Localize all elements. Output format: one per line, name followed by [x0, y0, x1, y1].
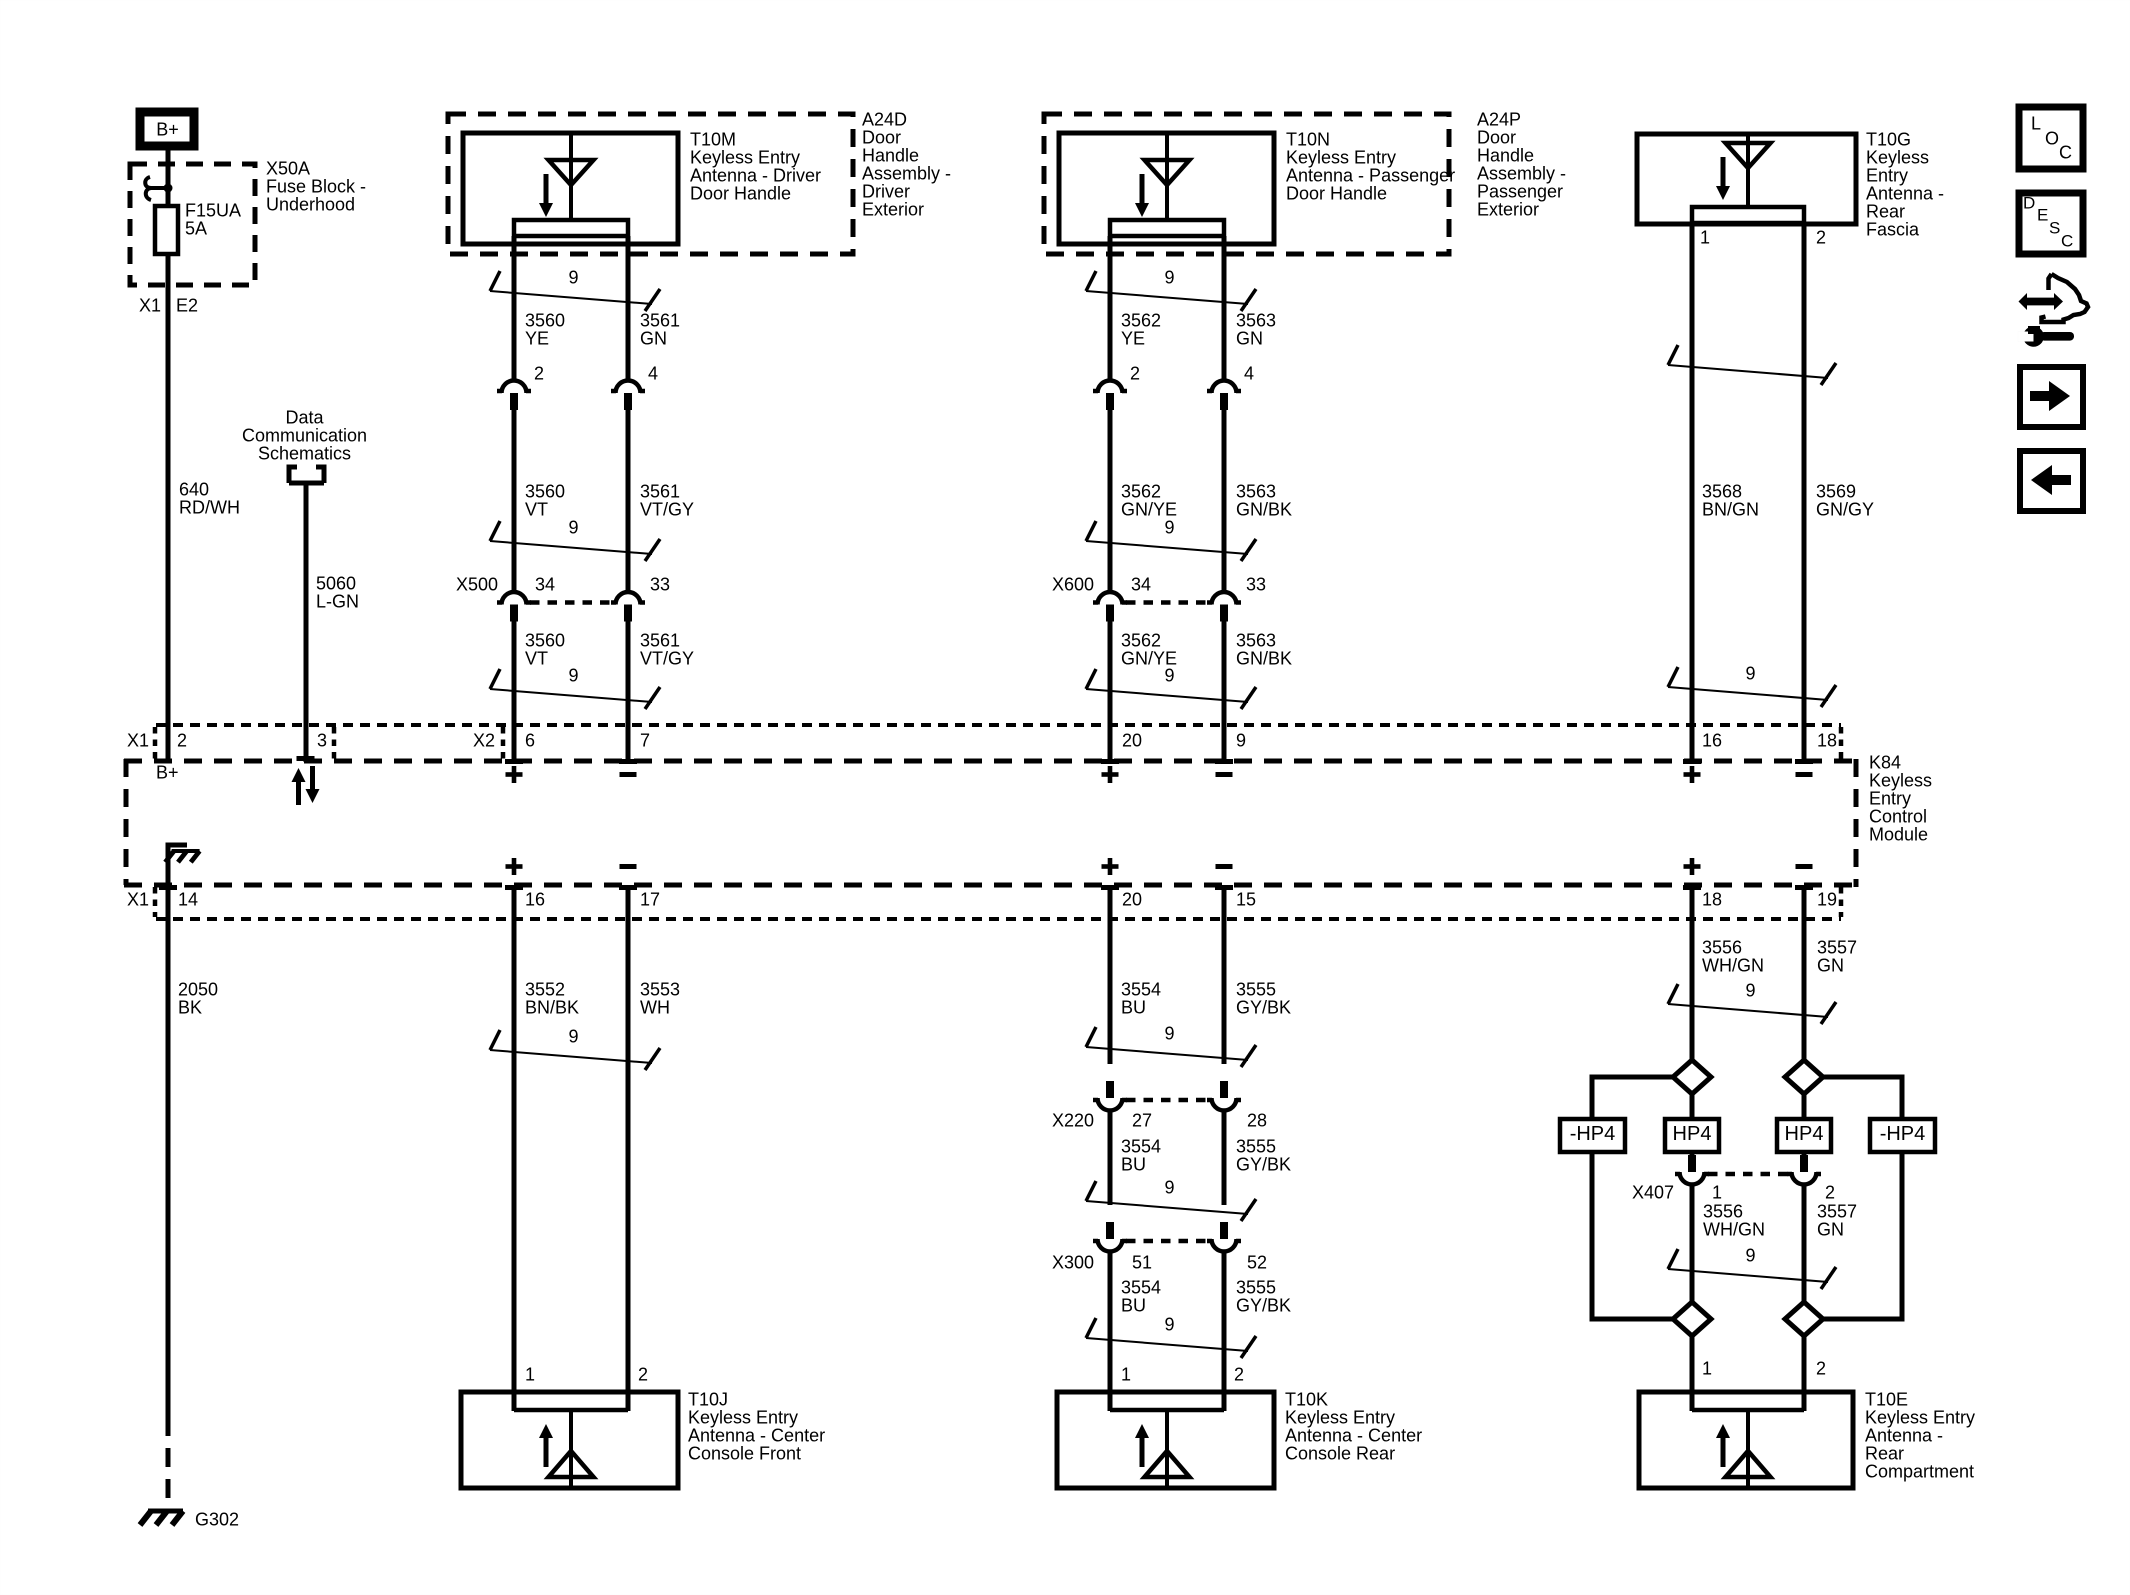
svg-text:20: 20: [1122, 730, 1142, 750]
svg-text:Fascia: Fascia: [1866, 219, 1920, 239]
svg-text:O: O: [2045, 128, 2059, 148]
svg-text:6: 6: [525, 730, 535, 750]
svg-text:BU: BU: [1121, 1154, 1146, 1174]
svg-text:Handle: Handle: [862, 145, 919, 165]
svg-text:-HP4: -HP4: [1880, 1123, 1926, 1145]
svg-text:9: 9: [568, 267, 578, 287]
svg-text:3562: 3562: [1121, 481, 1161, 501]
svg-text:Entry: Entry: [1866, 165, 1908, 185]
svg-text:B+: B+: [156, 762, 179, 782]
svg-text:RD/WH: RD/WH: [179, 497, 240, 517]
svg-text:3: 3: [317, 730, 327, 750]
svg-text:HP4: HP4: [1785, 1123, 1824, 1145]
svg-text:Underhood: Underhood: [266, 194, 355, 214]
svg-text:Entry: Entry: [1869, 788, 1911, 808]
svg-text:2: 2: [1825, 1182, 1835, 1202]
svg-text:Antenna - Driver: Antenna - Driver: [690, 165, 821, 185]
svg-text:T10E: T10E: [1865, 1389, 1908, 1409]
svg-text:Keyless Entry: Keyless Entry: [688, 1407, 798, 1427]
svg-text:3560: 3560: [525, 310, 565, 330]
svg-text:16: 16: [1702, 730, 1722, 750]
svg-text:X407: X407: [1632, 1182, 1674, 1202]
svg-text:Antenna -: Antenna -: [1865, 1425, 1943, 1445]
svg-text:X600: X600: [1052, 574, 1094, 594]
svg-text:GY/BK: GY/BK: [1236, 997, 1291, 1017]
svg-text:GN: GN: [1817, 1219, 1844, 1239]
svg-text:3560: 3560: [525, 630, 565, 650]
svg-text:640: 640: [179, 479, 209, 499]
svg-text:Assembly -: Assembly -: [862, 163, 951, 183]
svg-text:9: 9: [1164, 517, 1174, 537]
svg-text:E2: E2: [176, 295, 198, 315]
svg-text:52: 52: [1247, 1252, 1267, 1272]
svg-text:3561: 3561: [640, 481, 680, 501]
svg-text:GN/YE: GN/YE: [1121, 499, 1177, 519]
svg-text:Schematics: Schematics: [258, 443, 351, 463]
svg-text:Console Front: Console Front: [688, 1443, 801, 1463]
svg-text:Antenna - Center: Antenna - Center: [1285, 1425, 1422, 1445]
svg-text:4: 4: [1244, 363, 1254, 383]
svg-text:9: 9: [1164, 1023, 1174, 1043]
svg-text:Keyless Entry: Keyless Entry: [690, 147, 800, 167]
svg-text:WH: WH: [640, 997, 670, 1017]
svg-text:16: 16: [525, 889, 545, 909]
svg-text:BU: BU: [1121, 997, 1146, 1017]
svg-text:19: 19: [1817, 889, 1837, 909]
svg-text:3555: 3555: [1236, 979, 1276, 999]
svg-text:17: 17: [640, 889, 660, 909]
svg-text:VT/GY: VT/GY: [640, 499, 694, 519]
svg-text:27: 27: [1132, 1110, 1152, 1130]
svg-text:K84: K84: [1869, 752, 1901, 772]
svg-text:Exterior: Exterior: [1477, 199, 1539, 219]
svg-text:9: 9: [1164, 267, 1174, 287]
svg-text:Data: Data: [285, 407, 324, 427]
svg-text:1: 1: [1712, 1182, 1722, 1202]
svg-text:Antenna - Center: Antenna - Center: [688, 1425, 825, 1445]
svg-text:Rear: Rear: [1865, 1443, 1904, 1463]
svg-text:C: C: [2059, 142, 2072, 162]
svg-text:Keyless Entry: Keyless Entry: [1285, 1407, 1395, 1427]
svg-text:3563: 3563: [1236, 481, 1276, 501]
svg-text:C: C: [2061, 232, 2073, 251]
svg-text:L: L: [2031, 113, 2041, 133]
svg-text:5A: 5A: [185, 218, 207, 238]
svg-text:WH/GN: WH/GN: [1703, 1219, 1765, 1239]
svg-text:2: 2: [534, 363, 544, 383]
svg-text:34: 34: [1131, 574, 1151, 594]
svg-text:E: E: [2037, 206, 2048, 225]
svg-text:3563: 3563: [1236, 310, 1276, 330]
svg-text:3554: 3554: [1121, 979, 1161, 999]
svg-text:Driver: Driver: [862, 181, 910, 201]
svg-text:GN: GN: [1817, 955, 1844, 975]
svg-text:3556: 3556: [1702, 937, 1742, 957]
svg-text:T10M: T10M: [690, 129, 736, 149]
svg-text:F15UA: F15UA: [185, 200, 241, 220]
svg-text:3552: 3552: [525, 979, 565, 999]
svg-text:Keyless: Keyless: [1866, 147, 1929, 167]
svg-text:9: 9: [1745, 980, 1755, 1000]
svg-text:2: 2: [638, 1364, 648, 1384]
svg-text:GN: GN: [640, 328, 667, 348]
svg-text:9: 9: [1745, 663, 1755, 683]
svg-text:A24D: A24D: [862, 109, 907, 129]
svg-text:9: 9: [568, 517, 578, 537]
svg-text:A24P: A24P: [1477, 109, 1521, 129]
svg-text:18: 18: [1817, 730, 1837, 750]
svg-text:GN/GY: GN/GY: [1816, 499, 1874, 519]
svg-text:BU: BU: [1121, 1295, 1146, 1315]
svg-text:9: 9: [1164, 1314, 1174, 1334]
svg-text:WH/GN: WH/GN: [1702, 955, 1764, 975]
svg-text:3569: 3569: [1816, 481, 1856, 501]
svg-text:GY/BK: GY/BK: [1236, 1154, 1291, 1174]
svg-text:GN/BK: GN/BK: [1236, 648, 1292, 668]
svg-text:T10N: T10N: [1286, 129, 1330, 149]
svg-text:1: 1: [1700, 227, 1710, 247]
svg-text:YE: YE: [1121, 328, 1145, 348]
svg-text:9: 9: [568, 665, 578, 685]
svg-text:GN: GN: [1236, 328, 1263, 348]
svg-text:Antenna -: Antenna -: [1866, 183, 1944, 203]
svg-text:GN/BK: GN/BK: [1236, 499, 1292, 519]
svg-text:14: 14: [178, 889, 198, 909]
svg-text:3555: 3555: [1236, 1277, 1276, 1297]
svg-text:T10J: T10J: [688, 1389, 728, 1409]
svg-text:3563: 3563: [1236, 630, 1276, 650]
svg-text:2050: 2050: [178, 979, 218, 999]
svg-text:1: 1: [1702, 1358, 1712, 1378]
svg-text:3562: 3562: [1121, 310, 1161, 330]
svg-text:3554: 3554: [1121, 1277, 1161, 1297]
svg-text:2: 2: [1816, 1358, 1826, 1378]
svg-text:T10G: T10G: [1866, 129, 1911, 149]
svg-text:51: 51: [1132, 1252, 1152, 1272]
svg-text:28: 28: [1247, 1110, 1267, 1130]
svg-text:D: D: [2023, 194, 2035, 213]
svg-text:3560: 3560: [525, 481, 565, 501]
svg-text:BN/BK: BN/BK: [525, 997, 579, 1017]
svg-text:Door Handle: Door Handle: [1286, 183, 1387, 203]
svg-text:33: 33: [1246, 574, 1266, 594]
svg-text:-HP4: -HP4: [1570, 1123, 1616, 1145]
svg-text:Communication: Communication: [242, 425, 367, 445]
svg-text:3568: 3568: [1702, 481, 1742, 501]
svg-text:Exterior: Exterior: [862, 199, 924, 219]
svg-text:3562: 3562: [1121, 630, 1161, 650]
svg-text:Antenna - Passenger: Antenna - Passenger: [1286, 165, 1455, 185]
svg-text:Fuse Block -: Fuse Block -: [266, 176, 366, 196]
svg-text:VT: VT: [525, 648, 548, 668]
svg-text:2: 2: [1816, 227, 1826, 247]
svg-text:3557: 3557: [1817, 937, 1857, 957]
svg-text:9: 9: [568, 1026, 578, 1046]
svg-text:3555: 3555: [1236, 1136, 1276, 1156]
svg-text:9: 9: [1164, 665, 1174, 685]
svg-text:Compartment: Compartment: [1865, 1461, 1974, 1481]
svg-text:1: 1: [1121, 1364, 1131, 1384]
svg-text:18: 18: [1702, 889, 1722, 909]
svg-text:9: 9: [1745, 1245, 1755, 1265]
svg-text:Handle: Handle: [1477, 145, 1534, 165]
svg-text:Keyless Entry: Keyless Entry: [1286, 147, 1396, 167]
svg-text:Door: Door: [1477, 127, 1516, 147]
svg-text:T10K: T10K: [1285, 1389, 1328, 1409]
svg-text:BK: BK: [178, 997, 202, 1017]
svg-text:BN/GN: BN/GN: [1702, 499, 1759, 519]
svg-text:9: 9: [1236, 730, 1246, 750]
svg-text:9: 9: [1164, 1177, 1174, 1197]
svg-text:Door Handle: Door Handle: [690, 183, 791, 203]
svg-text:Control: Control: [1869, 806, 1927, 826]
svg-text:7: 7: [640, 730, 650, 750]
svg-text:VT: VT: [525, 499, 548, 519]
svg-text:3556: 3556: [1703, 1201, 1743, 1221]
svg-text:3561: 3561: [640, 310, 680, 330]
svg-text:X2: X2: [473, 730, 495, 750]
svg-text:X1: X1: [127, 730, 149, 750]
svg-text:Door: Door: [862, 127, 901, 147]
svg-text:GY/BK: GY/BK: [1236, 1295, 1291, 1315]
svg-text:1: 1: [525, 1364, 535, 1384]
svg-text:15: 15: [1236, 889, 1256, 909]
svg-text:Passenger: Passenger: [1477, 181, 1563, 201]
svg-text:Keyless: Keyless: [1869, 770, 1932, 790]
svg-text:HP4: HP4: [1673, 1123, 1712, 1145]
svg-text:Assembly -: Assembly -: [1477, 163, 1566, 183]
svg-text:Console Rear: Console Rear: [1285, 1443, 1395, 1463]
svg-text:2: 2: [1234, 1364, 1244, 1384]
svg-text:3561: 3561: [640, 630, 680, 650]
svg-text:3553: 3553: [640, 979, 680, 999]
svg-text:VT/GY: VT/GY: [640, 648, 694, 668]
svg-text:X500: X500: [456, 574, 498, 594]
svg-text:X300: X300: [1052, 1252, 1094, 1272]
svg-text:34: 34: [535, 574, 555, 594]
svg-text:X220: X220: [1052, 1110, 1094, 1130]
svg-text:YE: YE: [525, 328, 549, 348]
svg-text:X1: X1: [127, 889, 149, 909]
svg-text:L-GN: L-GN: [316, 591, 359, 611]
svg-text:X1: X1: [139, 295, 161, 315]
svg-text:3557: 3557: [1817, 1201, 1857, 1221]
svg-text:Keyless Entry: Keyless Entry: [1865, 1407, 1975, 1427]
svg-text:S: S: [2049, 219, 2060, 238]
svg-text:Module: Module: [1869, 824, 1928, 844]
svg-text:Rear: Rear: [1866, 201, 1905, 221]
svg-text:G302: G302: [195, 1509, 239, 1529]
svg-text:33: 33: [650, 574, 670, 594]
svg-text:X50A: X50A: [266, 158, 310, 178]
svg-text:B+: B+: [156, 119, 179, 139]
svg-text:4: 4: [648, 363, 658, 383]
svg-text:3554: 3554: [1121, 1136, 1161, 1156]
svg-text:5060: 5060: [316, 573, 356, 593]
svg-text:2: 2: [177, 730, 187, 750]
svg-text:20: 20: [1122, 889, 1142, 909]
svg-text:2: 2: [1130, 363, 1140, 383]
